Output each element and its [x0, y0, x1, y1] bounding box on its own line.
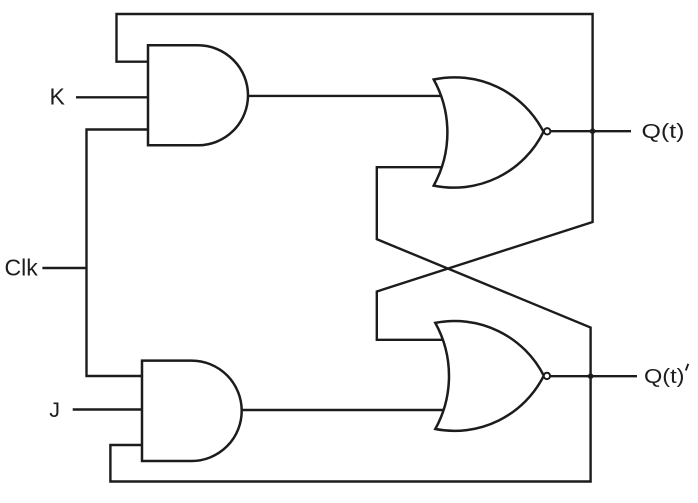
svg-text:Q(t): Q(t) [642, 121, 685, 143]
svg-text:J: J [49, 398, 60, 422]
svg-text:Q(t): Q(t) [644, 366, 685, 388]
svg-text:K: K [50, 84, 66, 110]
svg-text:Clk: Clk [5, 255, 39, 281]
